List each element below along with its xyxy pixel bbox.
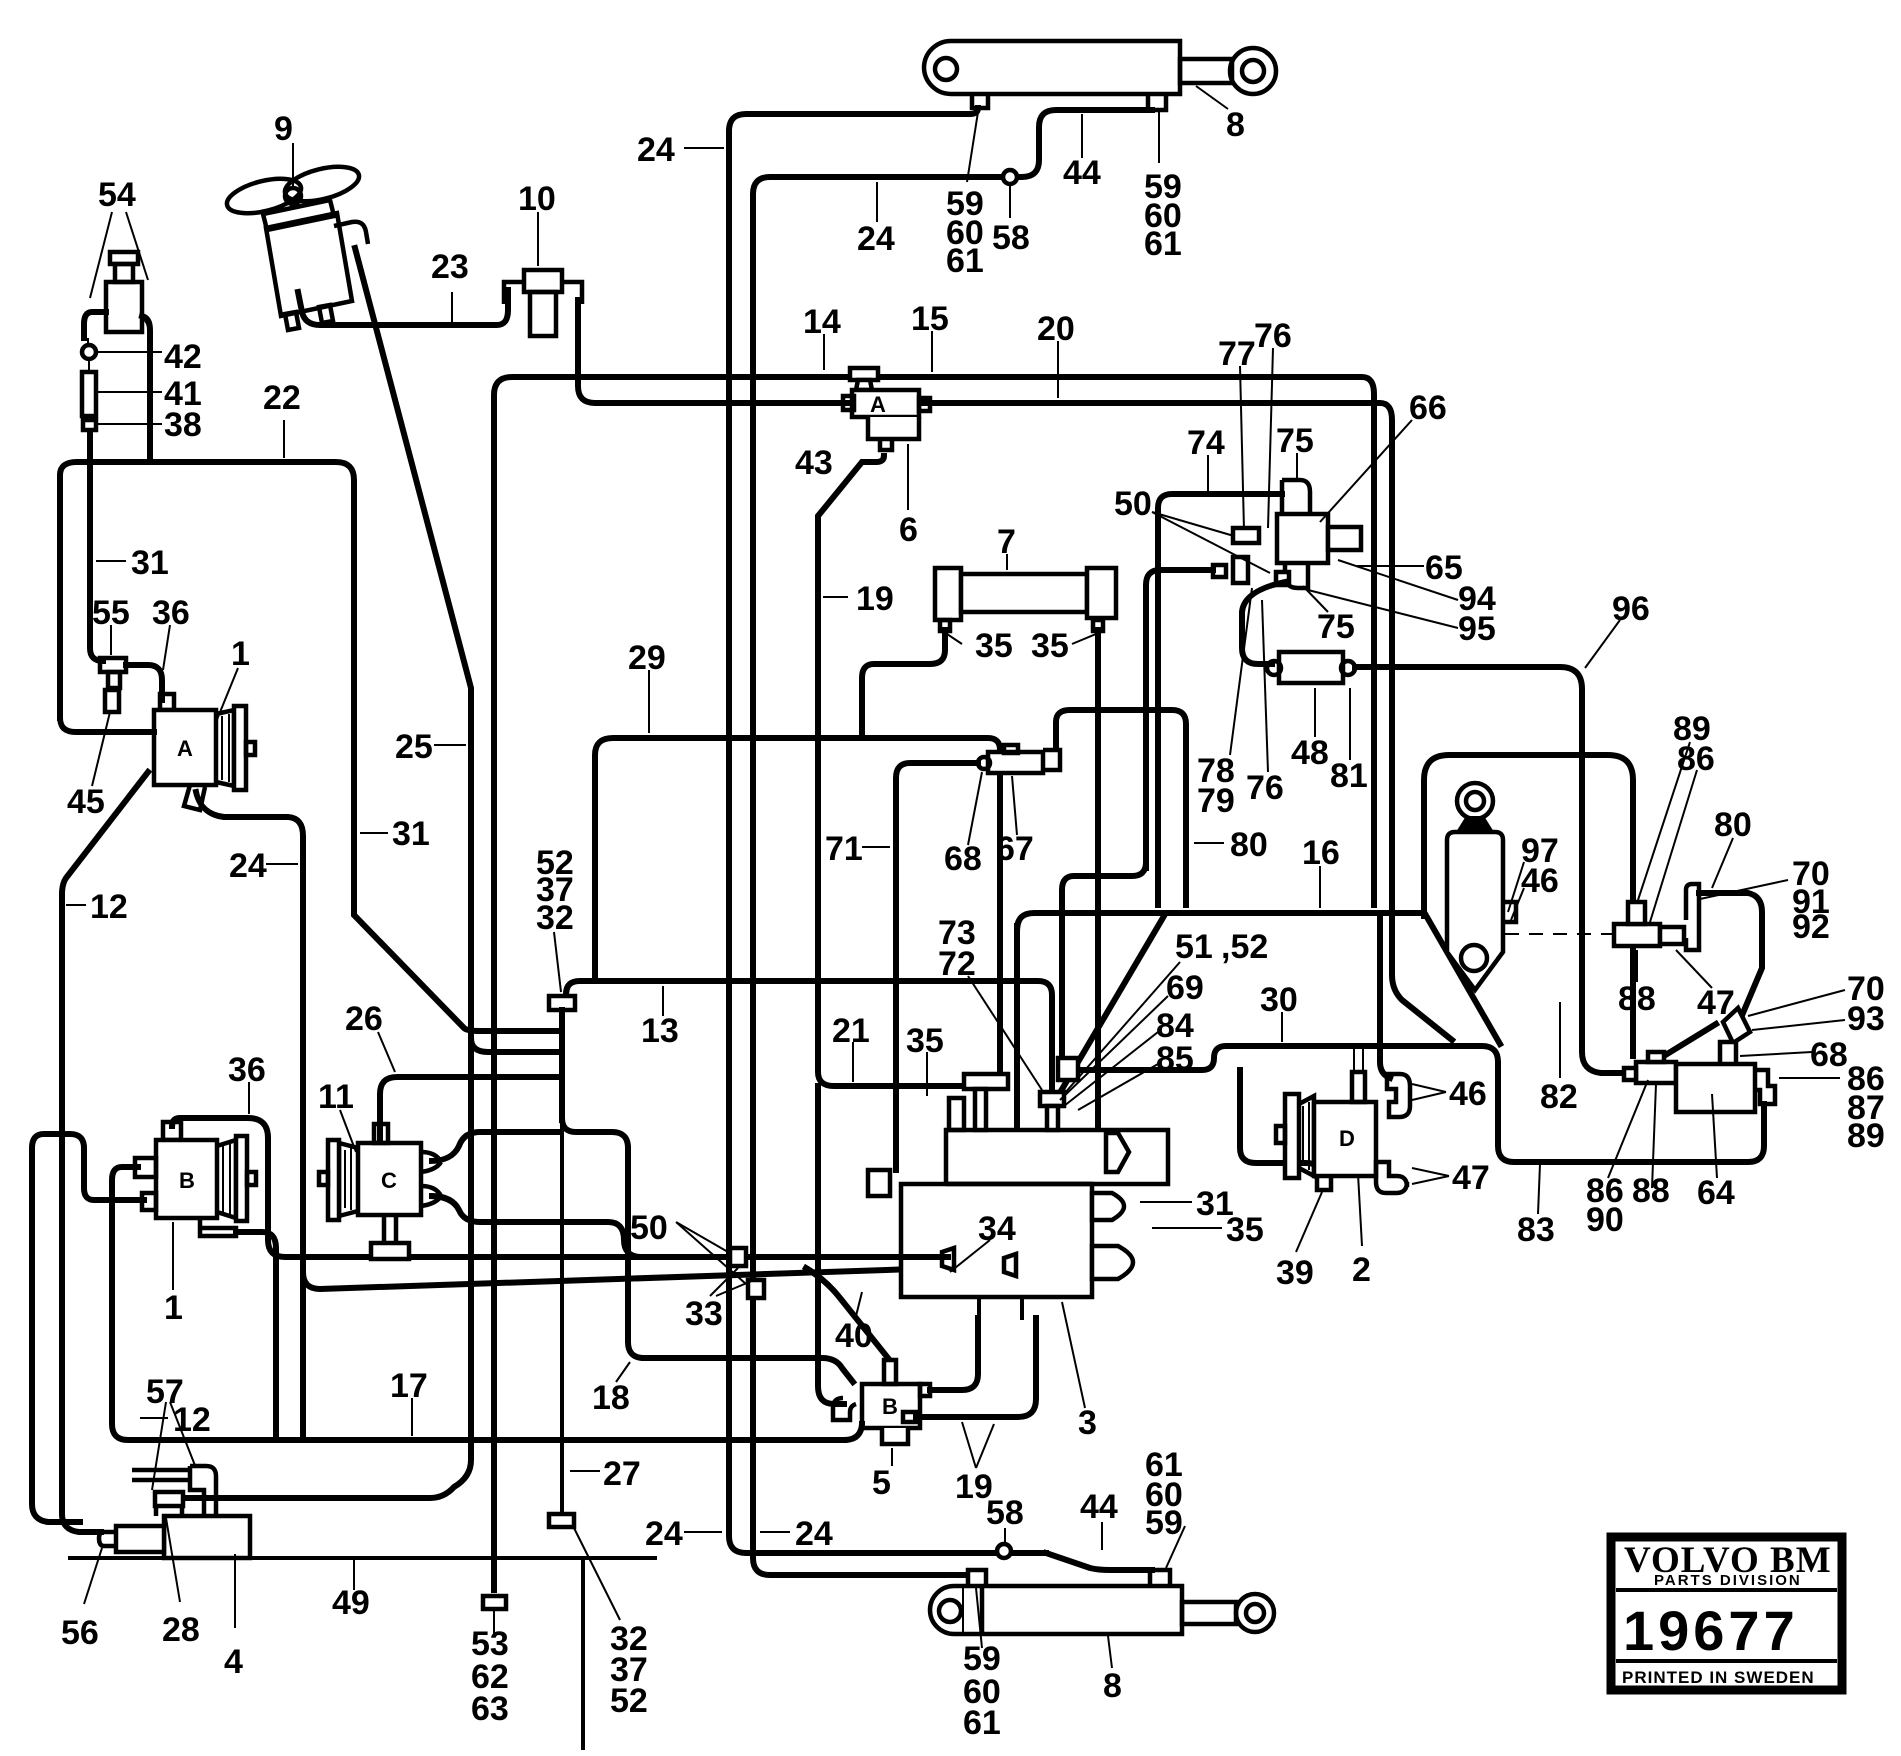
svg-text:45: 45 (67, 783, 105, 821)
leaders 31 35 right of block (1140, 1201, 1192, 1203)
leader 58 (1009, 186, 1011, 218)
svg-text:1: 1 (231, 635, 250, 673)
svg-text:79: 79 (1197, 782, 1235, 820)
svg-text:71: 71 (825, 830, 863, 868)
leader 82 (1559, 1002, 1561, 1078)
elbow 46 at valve D (1387, 1074, 1410, 1117)
top elbow 75 (1282, 480, 1310, 514)
svg-text:11: 11 (318, 1078, 354, 1116)
svg-text:35: 35 (1226, 1211, 1264, 1249)
svg-text:58: 58 (986, 1494, 1024, 1532)
svg-text:24: 24 (645, 1515, 683, 1553)
accumulator 97 (1447, 783, 1516, 990)
leader 44 bottom (1101, 1522, 1103, 1550)
wire 80 right (1699, 893, 1762, 1020)
svg-text:80: 80 (1230, 826, 1268, 864)
leader 29 (648, 670, 650, 733)
svg-text:92: 92 (1792, 908, 1830, 946)
leader 34 (950, 1240, 990, 1272)
wire 18 from chain down to small valve B (562, 1118, 853, 1382)
svg-text:96: 96 (1612, 590, 1650, 628)
svg-text:A: A (177, 736, 193, 761)
svg-text:83: 83 (1517, 1211, 1555, 1249)
svg-text:38: 38 (164, 406, 202, 444)
leader 7 (1006, 554, 1008, 570)
wire 24/31 from valve A bottom (196, 792, 303, 1438)
svg-text:50: 50 (630, 1209, 668, 1247)
svg-text:14: 14 (803, 303, 841, 341)
leader 59 60 61 left (967, 112, 978, 182)
svg-text:10: 10 (518, 180, 556, 218)
leader 20 (1057, 341, 1059, 398)
port 65 (1328, 527, 1361, 550)
leader 8 top (1196, 86, 1228, 109)
wire from filter right down into bus 15 (578, 300, 1392, 903)
arrows 46 47 (1412, 1084, 1446, 1100)
leaders 70 91 92 (1700, 880, 1788, 899)
svg-text:6: 6 (899, 511, 918, 549)
svg-text:51: 51 (1175, 928, 1213, 966)
part 45 (105, 690, 119, 712)
part 38 (83, 420, 96, 430)
svg-text:88: 88 (1632, 1172, 1670, 1210)
leaders 70 93 low (1748, 990, 1845, 1030)
svg-text:8: 8 (1103, 1667, 1122, 1705)
fitting 32 37 52 (549, 996, 575, 1010)
tee 55 (100, 658, 126, 688)
svg-text:34: 34 (978, 1210, 1016, 1248)
svg-text:85: 85 (1156, 1040, 1194, 1078)
valve D (1240, 1048, 1376, 1190)
svg-text:76: 76 (1254, 317, 1292, 355)
leaders 57 (152, 1402, 196, 1490)
central block 3 (901, 1130, 1168, 1297)
wire 25 pump suction diagonal down to reservoir (186, 248, 471, 1498)
tee stem diagonal to box64 (1654, 1024, 1716, 1062)
leader 27 (570, 1470, 600, 1472)
svg-text:13: 13 (641, 1012, 679, 1050)
svg-text:35: 35 (975, 627, 1013, 665)
wire 24 from top cylinder left port down left side (729, 108, 1046, 1553)
baseline 49 (70, 1556, 655, 1560)
svg-text:61: 61 (1144, 225, 1182, 263)
svg-text:17: 17 (390, 1367, 428, 1405)
svg-text:74: 74 (1187, 424, 1225, 462)
svg-text:,52: ,52 (1221, 928, 1268, 966)
svg-text:76: 76 (1246, 769, 1284, 807)
svg-text:22: 22 (263, 379, 301, 417)
svg-text:C: C (381, 1168, 397, 1193)
svg-text:50: 50 (1114, 485, 1152, 523)
svg-text:PRINTED IN SWEDEN: PRINTED IN SWEDEN (1622, 1668, 1815, 1687)
svg-text:21: 21 (832, 1012, 870, 1050)
svg-text:B: B (179, 1168, 195, 1193)
port elbow 59 on top cylinder left (972, 94, 988, 108)
leader 59 right (1158, 112, 1160, 163)
tee 88 (1614, 902, 1684, 946)
leader 58 bottom (1004, 1528, 1006, 1544)
wire 36 valve B top to bus 50 (172, 1118, 948, 1257)
bus 16 (1017, 913, 1420, 930)
svg-text:1: 1 (164, 1289, 183, 1327)
leader 44 top (1081, 114, 1083, 158)
svg-text:52: 52 (610, 1682, 648, 1720)
svg-text:59: 59 (1145, 1504, 1183, 1542)
svg-text:75: 75 (1317, 608, 1355, 646)
part 42 (82, 345, 96, 359)
wire bus 14 from corner down-left vertical 53 (494, 377, 1374, 1590)
svg-text:46: 46 (1521, 862, 1559, 900)
svg-text:68: 68 (1810, 1036, 1848, 1074)
elbow at 17 bus to small valve B (844, 1424, 862, 1440)
svg-text:47: 47 (1697, 984, 1735, 1022)
leaders 50 33 40 (676, 1222, 746, 1284)
svg-text:69: 69 (1166, 969, 1204, 1007)
valve A component 1 (154, 694, 255, 810)
leader 88 left (1636, 950, 1638, 982)
svg-text:95: 95 (1458, 610, 1496, 648)
leader 19 v (962, 1422, 994, 1468)
leader 10 (537, 212, 539, 266)
leaders 97 46 (1508, 862, 1524, 920)
svg-text:19677: 19677 (1623, 1599, 1799, 1662)
svg-text:44: 44 (1063, 154, 1101, 192)
leaders 39 2 (1296, 1192, 1322, 1252)
dashed line from accumulator to tee (1505, 933, 1614, 935)
svg-text:44: 44 (1080, 1488, 1118, 1526)
wire 44/24 from top cylinder right port (753, 110, 1152, 1575)
svg-text:36: 36 (152, 594, 190, 632)
leader 36 left (163, 625, 170, 670)
svg-text:75: 75 (1276, 422, 1314, 460)
elbow 47 at valve D (1376, 1162, 1407, 1193)
leader 68 right (1740, 1052, 1812, 1056)
bottom elbow 75 (1285, 563, 1308, 588)
wire 80 into valve 66 left (1146, 570, 1213, 868)
leader 21 (852, 1042, 854, 1082)
part 48 (1267, 652, 1355, 683)
couplers 50 on buses (730, 1248, 746, 1266)
svg-text:86: 86 (1677, 740, 1715, 778)
top hydraulic cylinder 8 (924, 41, 1276, 94)
block left elbow (868, 1170, 890, 1196)
wire 13 (566, 981, 1052, 1090)
svg-text:57: 57 (146, 1373, 184, 1411)
svg-text:24: 24 (795, 1515, 833, 1553)
diagonal 51,52 from bus to block fitting (1058, 916, 1164, 1096)
port elbows bottom cylinder (968, 1570, 986, 1586)
leaders 73 72 (968, 976, 1042, 1090)
svg-text:7: 7 (997, 523, 1016, 561)
svg-text:12: 12 (90, 888, 128, 926)
leader 1 low (172, 1222, 174, 1290)
leaders 86 90 88 64 83 (1608, 1080, 1648, 1178)
leader 14 (823, 334, 825, 370)
wire small valve B right to block stub (930, 1318, 978, 1390)
leader 32 37 52 top (554, 932, 561, 992)
leader 59 60 61 bottom-left (976, 1588, 982, 1648)
fitting 70 93 tilted (1723, 1008, 1750, 1043)
svg-text:80: 80 (1714, 806, 1752, 844)
svg-text:58: 58 (992, 219, 1030, 257)
wire from 38 down through bus to tee 55 (90, 432, 103, 661)
port elbow 59 on top cylinder right (1148, 94, 1166, 110)
wire tee55 to valve A top port (126, 665, 162, 700)
svg-text:42: 42 (164, 338, 202, 376)
svg-text:93: 93 (1847, 1000, 1885, 1038)
wire from bottom elbow to part 48 (1242, 582, 1285, 664)
box64 right port bracket (1755, 1070, 1775, 1104)
fitting 58 bottom (997, 1544, 1011, 1558)
wire 71 from 67 left to block (896, 763, 978, 1170)
wire 30 82 83 main path (1074, 1046, 1764, 1162)
svg-text:77: 77 (1218, 335, 1256, 373)
svg-text:72: 72 (938, 945, 976, 983)
leaders 51,52 69 84 85 (1064, 962, 1180, 1094)
wire diagonal to small valve B top (806, 1268, 888, 1358)
accumulator frame (1424, 755, 1633, 1056)
svg-text:35: 35 (1031, 627, 1069, 665)
leader 11 (340, 1110, 356, 1152)
wire 22 bus (60, 462, 556, 1031)
leader 9 (292, 143, 294, 188)
svg-text:31: 31 (392, 815, 430, 853)
wire 23 pump to filter (298, 290, 508, 325)
leader 47 right (1676, 950, 1712, 988)
leaders 35 35 under comp7 (947, 634, 962, 644)
svg-text:4: 4 (224, 1643, 243, 1681)
leaders 94 95 (1338, 560, 1458, 600)
wire valve C lower right to bus (432, 1196, 672, 1257)
leader 30 (1281, 1012, 1283, 1042)
leader 74 (1207, 455, 1209, 492)
svg-text:43: 43 (795, 444, 833, 482)
wire 26 valve C to fitting (380, 1077, 560, 1140)
svg-text:90: 90 (1586, 1201, 1624, 1239)
svg-text:B: B (882, 1394, 898, 1419)
wire bus15 tail to 30 corner (1392, 900, 1452, 1040)
component 7 (935, 568, 1116, 631)
wire 12 from valve A down-left (62, 772, 148, 1532)
leaders 78 79 76 48 81 (1230, 588, 1252, 755)
wire 43/19/21 from small valve A bottom elbow (818, 456, 968, 1086)
svg-text:35: 35 (906, 1022, 944, 1060)
bottom cylinder 8 (930, 1586, 1274, 1634)
svg-text:55: 55 (92, 594, 130, 632)
leader 15 (931, 331, 933, 372)
block 35 elbow (949, 1098, 964, 1130)
valve C component 11 (319, 1124, 441, 1259)
svg-text:88: 88 (1618, 980, 1656, 1018)
leader 61 60 59 bottom-right (1166, 1526, 1185, 1568)
wire comp7 left feed (862, 630, 945, 738)
svg-text:29: 29 (628, 639, 666, 677)
branch to bus 40 (303, 1266, 1006, 1289)
fitting 67 (978, 745, 1060, 773)
svg-text:66: 66 (1409, 389, 1447, 427)
leader 8 bottom (1108, 1636, 1112, 1668)
valve 66 body (1277, 514, 1328, 563)
svg-text:33: 33 (685, 1295, 723, 1333)
svg-text:32: 32 (536, 899, 574, 937)
svg-text:A: A (870, 392, 886, 417)
svg-text:39: 39 (1276, 1254, 1314, 1292)
svg-text:54: 54 (98, 176, 136, 214)
branch of suction line to coupling chain (471, 1038, 556, 1052)
filter 10 (504, 270, 582, 336)
leader 86 87 89 right (1779, 1077, 1840, 1079)
svg-text:9: 9 (274, 110, 293, 148)
svg-text:30: 30 (1260, 981, 1298, 1019)
fitting 58 on line (1003, 170, 1017, 184)
wire 74 feed (1158, 494, 1282, 905)
wire from 67 right elbow up and to 80 drop (1056, 710, 1186, 905)
svg-text:24: 24 (637, 131, 675, 169)
svg-text:36: 36 (228, 1051, 266, 1089)
svg-text:19: 19 (856, 580, 894, 618)
block tee 51 52 (1040, 1092, 1064, 1130)
svg-text:31: 31 (131, 544, 169, 582)
wire valve B left-low loop (32, 1134, 144, 1522)
wire 16 drop to block (1014, 926, 1020, 1140)
svg-text:48: 48 (1291, 734, 1329, 772)
leader 6 (907, 444, 909, 510)
svg-text:3: 3 (1078, 1404, 1097, 1442)
block top tee 1 (21 line) (964, 1074, 1008, 1130)
leaders 89 86 right (1638, 742, 1697, 922)
pump 9 with fan (223, 160, 368, 330)
svg-text:28: 28 (162, 1611, 200, 1649)
svg-text:2: 2 (1352, 1251, 1371, 1289)
svg-text:26: 26 (345, 1000, 383, 1038)
wire chain below fitting (559, 1010, 565, 1120)
leader 80 right (1712, 838, 1733, 888)
small valve B (5) (833, 1360, 930, 1444)
VOLVO BM plate (1611, 1537, 1842, 1690)
svg-text:24: 24 (857, 220, 895, 258)
svg-text:81: 81 (1330, 757, 1368, 795)
leader 36 low (248, 1082, 250, 1114)
wire frame-left drop to valve D (1380, 916, 1390, 1078)
wire valve B left-mid to 17 bus (112, 1167, 844, 1440)
svg-text:61: 61 (963, 1704, 1001, 1742)
leader 1 (216, 668, 238, 722)
reservoir unit 4 28 56 57 (99, 1466, 250, 1558)
valve B component 1 lower-left (135, 1122, 256, 1236)
leader 49 (353, 1560, 355, 1590)
leader 32 37 52 bottom (574, 1528, 620, 1620)
svg-text:68: 68 (944, 840, 982, 878)
wire left-80 corner to block 30 line (1062, 862, 1146, 1070)
leader 67 (1012, 776, 1017, 835)
leader 5 (891, 1448, 893, 1466)
leader 50 valve66 (1152, 512, 1270, 573)
svg-text:46: 46 (1449, 1075, 1487, 1113)
leader 17 (411, 1398, 413, 1436)
leaders 77 76 top (1240, 366, 1244, 530)
svg-text:PARTS DIVISION: PARTS DIVISION (1654, 1572, 1802, 1589)
leader 75 top (1296, 453, 1298, 478)
svg-text:27: 27 (603, 1455, 641, 1493)
svg-text:18: 18 (592, 1379, 630, 1417)
svg-text:89: 89 (1847, 1117, 1885, 1155)
leader 75 right-low (1303, 586, 1328, 612)
leader 18 (616, 1362, 630, 1382)
svg-text:61: 61 (946, 242, 984, 280)
cap 53 62 63 (483, 1596, 506, 1609)
bracket 70 91 92 (1686, 884, 1699, 950)
part 41 (82, 372, 96, 416)
svg-text:67: 67 (996, 830, 1034, 868)
wire 44 bottom S-bend (1046, 1553, 1152, 1570)
leader 65 (1357, 565, 1424, 567)
wire 96 from 48 right (1355, 667, 1624, 1073)
svg-text:63: 63 (471, 1690, 509, 1728)
svg-text:D: D (1339, 1126, 1355, 1151)
svg-text:16: 16 (1302, 834, 1340, 872)
leader 35 mid (926, 1052, 928, 1096)
svg-text:20: 20 (1037, 310, 1075, 348)
svg-text:25: 25 (395, 728, 433, 766)
wire small valve B lower right to block stub2 (916, 1318, 1036, 1417)
svg-text:23: 23 (431, 248, 469, 286)
tee at box64 left (1624, 1052, 1676, 1083)
leader 3 (1062, 1302, 1085, 1408)
svg-text:24: 24 (229, 847, 267, 885)
bus end plugs at block (1004, 1254, 1016, 1276)
leaders 56 28 4 (84, 1548, 102, 1604)
leader 68 (968, 772, 982, 845)
svg-text:8: 8 (1226, 106, 1245, 144)
valve 54 assembly (84, 252, 150, 460)
svg-text:5: 5 (872, 1464, 891, 1502)
box 64 (1676, 1064, 1755, 1112)
small valve A (6) on bus (843, 368, 930, 450)
leader 66 (1320, 420, 1412, 522)
wire 29 (595, 738, 1000, 1078)
wire valve B foot right (236, 1232, 276, 1436)
wire left vertical into valve A (60, 718, 154, 732)
leaders 54 (90, 212, 148, 298)
svg-text:64: 64 (1697, 1174, 1735, 1212)
leader 71 (862, 846, 890, 848)
wire valve C upper right to 18 line (432, 1132, 560, 1161)
svg-text:82: 82 (1540, 1078, 1578, 1116)
svg-text:47: 47 (1452, 1159, 1490, 1197)
leader 96 (1585, 620, 1620, 668)
svg-text:15: 15 (911, 300, 949, 338)
svg-text:56: 56 (61, 1614, 99, 1652)
svg-text:49: 49 (332, 1584, 370, 1622)
wire comp7 right down to block (1095, 630, 1101, 1140)
left tee 77 76 (1233, 528, 1259, 543)
